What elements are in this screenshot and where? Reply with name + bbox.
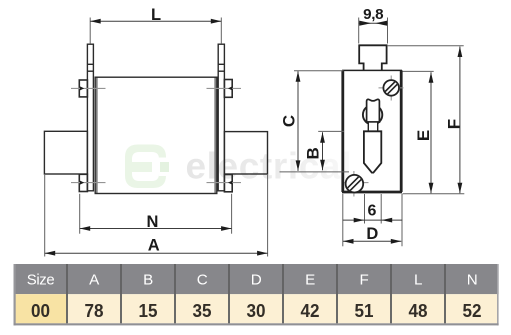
svg-text:35: 35 <box>193 301 212 321</box>
svg-text:B: B <box>143 272 153 289</box>
svg-text:A: A <box>148 236 160 254</box>
svg-text:F: F <box>360 272 369 289</box>
svg-text:42: 42 <box>301 301 320 321</box>
svg-text:C: C <box>279 115 298 127</box>
svg-text:L: L <box>414 272 422 289</box>
svg-text:Size: Size <box>27 272 55 289</box>
svg-text:L: L <box>151 6 161 24</box>
svg-text:N: N <box>147 213 159 231</box>
svg-text:A: A <box>89 272 100 289</box>
svg-text:15: 15 <box>139 301 158 321</box>
svg-text:9,8: 9,8 <box>363 6 383 23</box>
svg-text:D: D <box>251 272 262 289</box>
svg-text:00: 00 <box>31 301 50 321</box>
svg-text:51: 51 <box>355 301 374 321</box>
svg-text:F: F <box>444 119 463 129</box>
svg-text:E: E <box>414 130 433 141</box>
svg-text:30: 30 <box>247 301 266 321</box>
svg-text:C: C <box>197 272 208 289</box>
svg-text:B: B <box>304 147 323 159</box>
svg-text:52: 52 <box>463 301 482 321</box>
svg-text:48: 48 <box>409 301 428 321</box>
svg-text:N: N <box>467 272 478 289</box>
svg-text:E: E <box>305 272 315 289</box>
svg-text:electrical: electrical <box>186 146 352 187</box>
svg-text:6: 6 <box>367 202 376 219</box>
svg-text:D: D <box>366 225 378 243</box>
svg-text:78: 78 <box>85 301 104 321</box>
